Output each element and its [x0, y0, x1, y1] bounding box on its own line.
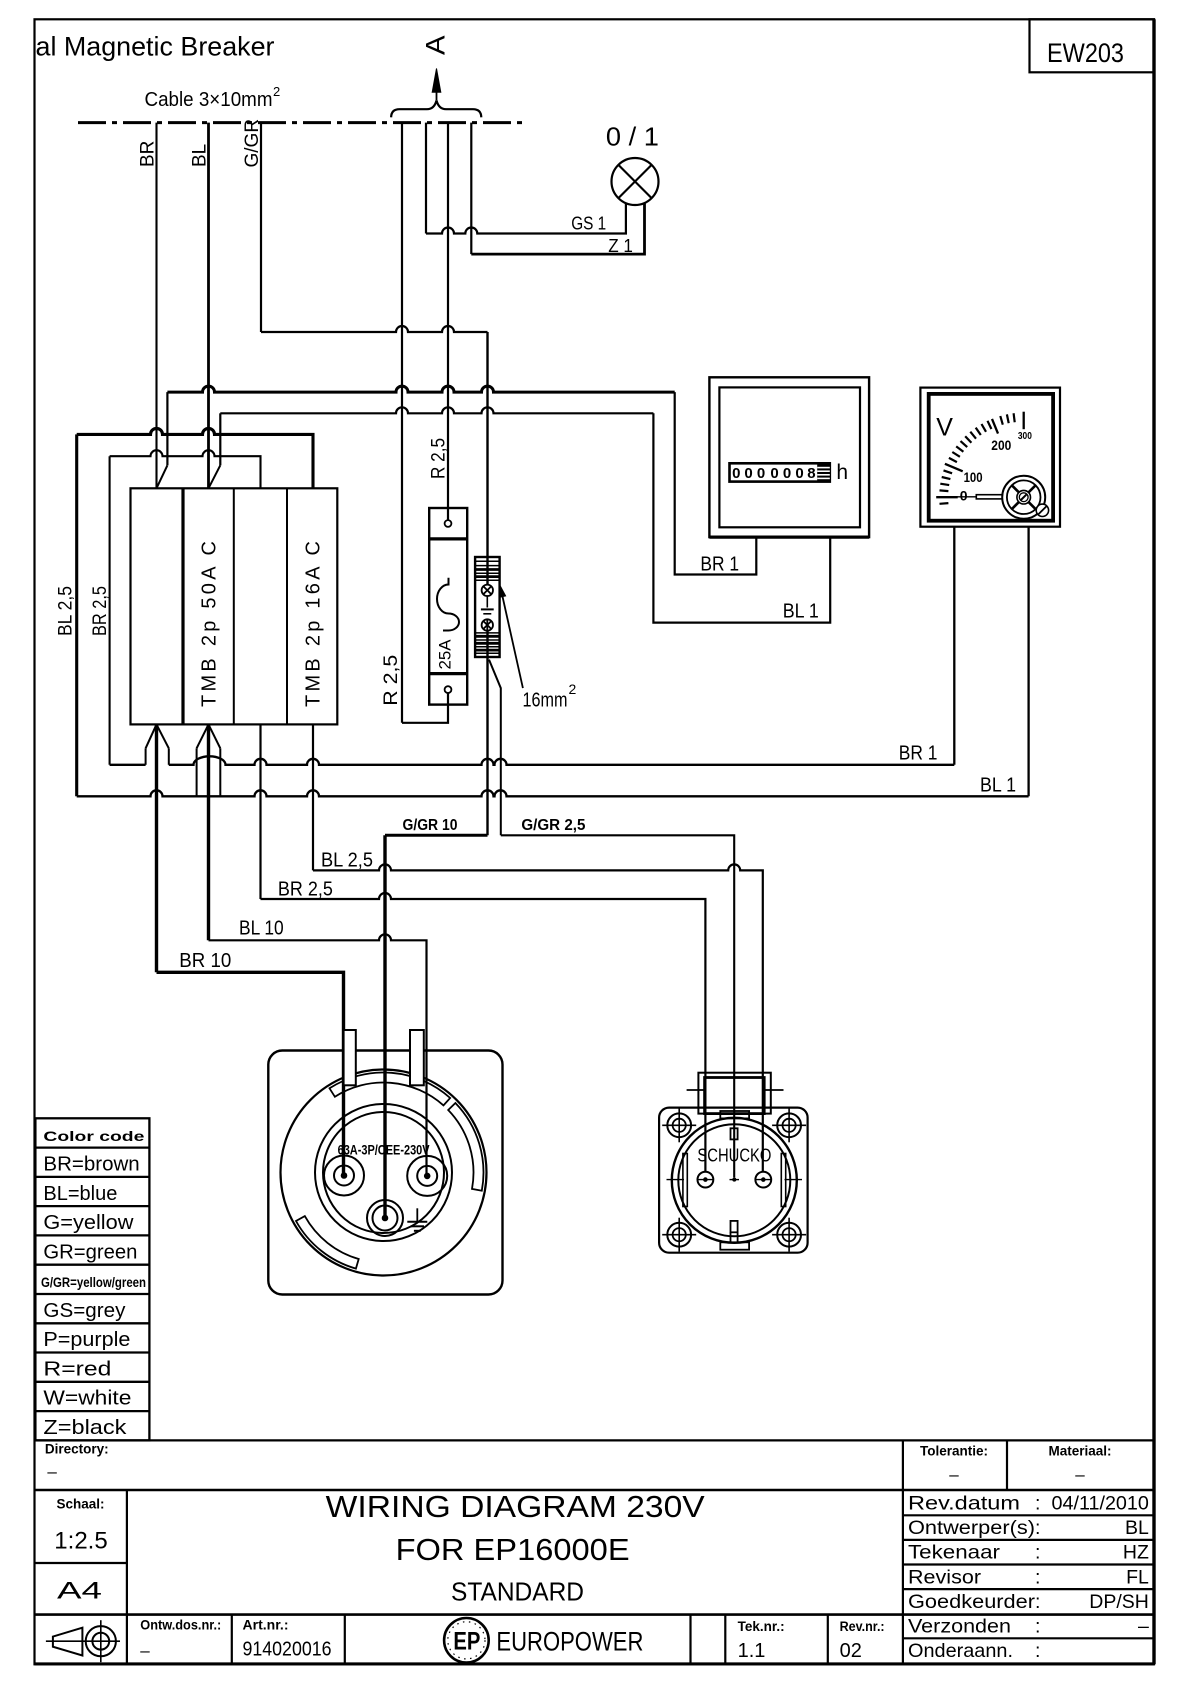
- svg-text:0: 0: [795, 465, 803, 482]
- svg-text:WIRING DIAGRAM 230V: WIRING DIAGRAM 230V: [326, 1489, 705, 1524]
- SCHUKO mounting screw top-left: [662, 1108, 696, 1142]
- wire BL vertical from cable to breaker: [207, 123, 210, 489]
- brace over cable bundle A: [391, 100, 481, 117]
- wire G/GR 10 run to CEE centre pin: [385, 835, 488, 1215]
- svg-text:G/GR=yellow/green: G/GR=yellow/green: [41, 1275, 146, 1290]
- svg-text:Schaal:: Schaal:: [56, 1496, 104, 1511]
- svg-text:0 / 1: 0 / 1: [606, 121, 659, 151]
- svg-text:Onderaann.: Onderaann.: [908, 1640, 1013, 1662]
- cable dash-dot line: [78, 121, 524, 124]
- svg-text:300: 300: [1018, 431, 1032, 442]
- svg-text:GS=grey: GS=grey: [43, 1300, 125, 1322]
- wire BR vertical from cable to breaker: [155, 123, 157, 489]
- svg-text:0: 0: [783, 465, 791, 482]
- wire breaker output 3 straight down: [259, 724, 261, 899]
- svg-text:25A: 25A: [436, 639, 455, 670]
- CEE bayonet ring arcs: [296, 1072, 483, 1268]
- wire 16A feed upper: line y434 to BL2,5 drop: [77, 428, 313, 796]
- CEE outer circle: [281, 1070, 487, 1276]
- svg-text:Rev.datum: Rev.datum: [908, 1493, 1020, 1515]
- svg-text:P=purple: P=purple: [43, 1329, 130, 1351]
- node BL tap to hour counter: line y413: [209, 407, 831, 622]
- svg-text:1:2.5: 1:2.5: [54, 1528, 107, 1555]
- EUROPOWER logo: [444, 1618, 489, 1663]
- svg-text:al Magnetic Breaker: al Magnetic Breaker: [36, 32, 275, 62]
- svg-text:G/GR 2,5: G/GR 2,5: [521, 817, 585, 834]
- CEE socket 63A outline: [268, 1051, 502, 1295]
- circuit breaker TMB box: [131, 488, 338, 724]
- svg-text:0: 0: [757, 465, 765, 482]
- svg-text:BR=brown: BR=brown: [43, 1154, 139, 1176]
- node BR tap to hour counter: line y392: [157, 386, 757, 574]
- svg-text:–: –: [949, 1465, 959, 1484]
- SCHUKO top connection box: [687, 1073, 784, 1114]
- SCHUKO centre point: [732, 1178, 736, 1182]
- svg-text:–: –: [1075, 1465, 1085, 1484]
- voltmeter scale ticks: [936, 412, 1024, 504]
- wire breaker output 4 straight down: [312, 724, 314, 870]
- svg-text:FOR EP16000E: FOR EP16000E: [396, 1532, 630, 1567]
- SCHUKO pin left: [698, 1172, 714, 1188]
- wire fuse bottom to A1: [402, 693, 448, 723]
- color code table: [35, 1118, 149, 1440]
- svg-text:EUROPOWER: EUROPOWER: [496, 1626, 643, 1656]
- svg-text:04/11/2010: 04/11/2010: [1052, 1493, 1150, 1515]
- svg-text:EP: EP: [453, 1628, 480, 1656]
- wire BL 2,5 run to SCHUKO right pin (hops G/GR wires): [313, 864, 763, 1171]
- svg-text:BL 1: BL 1: [980, 775, 1016, 797]
- svg-text:BR 10: BR 10: [179, 950, 231, 972]
- svg-text:GS 1: GS 1: [571, 213, 606, 233]
- svg-text:A4: A4: [57, 1578, 102, 1605]
- CEE mounting tabs: [344, 1030, 424, 1085]
- svg-text:DP/SH: DP/SH: [1089, 1591, 1149, 1613]
- terminal block screw 1: [482, 585, 493, 596]
- svg-text:Z=black: Z=black: [43, 1417, 127, 1439]
- wire t2 tap diagonals to BL1 bus: [197, 724, 221, 796]
- terminal block screw 2: [482, 619, 493, 630]
- svg-text:Color code: Color code: [43, 1128, 144, 1144]
- hour counter tenth drum (hatched): [817, 464, 830, 482]
- svg-text:Cable 3×10mm: Cable 3×10mm: [145, 89, 273, 111]
- SCHUKO mounting screw bottom-right: [772, 1218, 806, 1252]
- svg-text:8: 8: [807, 465, 815, 482]
- arrow A (measurement reference): [432, 69, 441, 101]
- svg-text:0: 0: [732, 465, 740, 482]
- svg-text::: :: [1035, 1517, 1040, 1539]
- hour counter digit window: [730, 463, 830, 481]
- lamp / switch indicator 0/1: [612, 158, 659, 205]
- svg-text:63A-3P/CEE-230V: 63A-3P/CEE-230V: [338, 1143, 430, 1158]
- svg-text:Goedkeurder: Goedkeurder: [908, 1591, 1036, 1613]
- svg-text::: :: [1035, 1640, 1040, 1662]
- CEE earth symbol: [407, 1208, 427, 1231]
- svg-text:BL=blue: BL=blue: [43, 1183, 117, 1205]
- voltmeter V1 box: [920, 388, 1060, 527]
- fuse F1 25A body: [429, 508, 467, 705]
- wire A4 vertical (to Z1): [470, 123, 472, 255]
- svg-text:Verzonden: Verzonden: [908, 1616, 1011, 1638]
- svg-text:W=white: W=white: [43, 1388, 131, 1410]
- svg-text:A: A: [421, 35, 451, 55]
- SCHUKO pin right: [755, 1172, 771, 1188]
- svg-text:1.1: 1.1: [738, 1640, 766, 1662]
- CEE inner circles: [315, 1104, 452, 1241]
- svg-text:BR 2,5: BR 2,5: [90, 586, 111, 636]
- svg-text:V: V: [936, 414, 953, 442]
- svg-text:Tolerantie:: Tolerantie:: [920, 1444, 988, 1459]
- SCHUKO centrelines: [667, 1179, 803, 1181]
- SCHUKO side earth slots: [683, 1154, 786, 1207]
- SCHUKO face circles: [672, 1118, 797, 1243]
- svg-text:BR: BR: [138, 141, 159, 167]
- svg-text:Art.nr.:: Art.nr.:: [243, 1618, 289, 1633]
- svg-text::: :: [1035, 1616, 1040, 1638]
- leader line 16mm2 with arrow: [500, 586, 523, 688]
- svg-text:GR=green: GR=green: [43, 1241, 137, 1263]
- svg-text:100: 100: [964, 470, 983, 485]
- svg-text:BL 1: BL 1: [783, 601, 819, 623]
- wire BR 2,5 run to SCHUKO left pin: [261, 893, 706, 1172]
- svg-text:BR 2,5: BR 2,5: [278, 878, 333, 900]
- svg-text:Revisor: Revisor: [908, 1566, 982, 1588]
- svg-text:Directory:: Directory:: [45, 1441, 109, 1456]
- svg-text:FL: FL: [1126, 1566, 1149, 1588]
- svg-text::: :: [1035, 1591, 1040, 1613]
- svg-text:2: 2: [569, 681, 577, 697]
- svg-text:BR 1: BR 1: [899, 743, 938, 765]
- svg-text:16mm: 16mm: [523, 690, 568, 712]
- svg-text:Materiaal:: Materiaal:: [1048, 1444, 1111, 1459]
- wire BL1 bus to voltmeter: [77, 527, 1029, 797]
- SCHUKO mounting screw top-right: [772, 1108, 806, 1142]
- svg-text:Tekenaar: Tekenaar: [908, 1542, 1001, 1564]
- voltmeter scale labels: [960, 431, 1032, 504]
- wire Z1 horizontal to lamp: [471, 203, 644, 254]
- hour counter P1 box: [709, 377, 869, 537]
- svg-text:R 2,5: R 2,5: [381, 655, 402, 706]
- wire A3 vertical (to fuse top): [447, 123, 449, 521]
- svg-text::: :: [1035, 1542, 1040, 1564]
- wire 16A feed lower: line y456 to BR2,5 drop: [110, 450, 261, 765]
- wire terminal block feed (G/GR down from y332): [486, 332, 488, 585]
- voltmeter needle: [952, 495, 1006, 499]
- svg-text:Rev.nr.:: Rev.nr.:: [840, 1619, 885, 1634]
- svg-text:SCHUCKO: SCHUCKO: [697, 1146, 771, 1166]
- svg-text:0: 0: [744, 465, 752, 482]
- svg-text:R=red: R=red: [43, 1358, 111, 1380]
- svg-text:Tek.nr.:: Tek.nr.:: [738, 1619, 785, 1634]
- svg-text:2: 2: [273, 84, 280, 99]
- svg-text:G/GR: G/GR: [242, 119, 263, 168]
- projection symbol: [46, 1620, 120, 1662]
- svg-text:BL: BL: [190, 144, 211, 167]
- svg-text:0: 0: [770, 465, 778, 482]
- svg-text:–: –: [140, 1641, 150, 1660]
- SCHUKO socket outline: [659, 1108, 808, 1253]
- svg-text:BL 2,5: BL 2,5: [56, 586, 77, 636]
- wire t1 tap diagonals to BR1 bus: [146, 724, 169, 764]
- svg-text:Z 1: Z 1: [608, 236, 633, 256]
- svg-text:BL: BL: [1125, 1517, 1149, 1539]
- hour counter digits 0000008: [732, 465, 815, 482]
- revision table texts: [908, 1493, 1149, 1663]
- svg-text:BL 10: BL 10: [239, 918, 284, 940]
- CEE pin PE (bottom): [367, 1200, 403, 1236]
- svg-text:Ontwerper(s): Ontwerper(s): [908, 1517, 1035, 1539]
- wire terminal block bottom to G/GR10: [486, 631, 488, 836]
- wire G/GR 2,5 run to SCHUKO earth: [501, 835, 734, 1177]
- svg-text:–: –: [1138, 1616, 1149, 1638]
- svg-text::: :: [1035, 1493, 1040, 1515]
- wire breaker output 2 (BL) straight down: [207, 724, 210, 940]
- wire G/GR vertical from cable: [260, 123, 262, 332]
- svg-text:–: –: [47, 1462, 57, 1481]
- SCHUKO mounting screw bottom-left: [662, 1218, 696, 1252]
- svg-text:STANDARD: STANDARD: [451, 1576, 584, 1606]
- svg-text:R 2,5: R 2,5: [429, 438, 450, 479]
- title box EW203: [1030, 19, 1155, 72]
- svg-text:914020016: 914020016: [243, 1639, 332, 1661]
- svg-text::: :: [1035, 1566, 1040, 1588]
- wire terminal block diagonal to G/GR2,5 riser: [489, 660, 501, 836]
- CEE pin N (right): [407, 1156, 447, 1196]
- CEE pin L (left): [324, 1156, 364, 1196]
- voltmeter locking screw: [1036, 504, 1048, 516]
- svg-text:G/GR 10: G/GR 10: [403, 817, 458, 834]
- SCHUKO top tab and earth slot: [720, 1111, 749, 1250]
- wire A2 vertical (to GS1): [425, 123, 427, 234]
- voltmeter adjuster wheel: [1002, 476, 1045, 519]
- svg-text:HZ: HZ: [1123, 1542, 1149, 1564]
- wire A1 vertical (to fuse bottom): [401, 123, 403, 723]
- svg-text:h: h: [836, 461, 848, 484]
- svg-text:G=yellow: G=yellow: [43, 1212, 134, 1234]
- svg-text:200: 200: [991, 438, 1011, 453]
- svg-text:0: 0: [960, 488, 968, 504]
- wire BL 10 run to CEE right pin: [209, 934, 427, 1173]
- wire BR1 bus to voltmeter: [110, 527, 955, 765]
- svg-text:BL 2,5: BL 2,5: [321, 850, 373, 872]
- svg-text:02: 02: [840, 1640, 862, 1662]
- terminal block earth link: [481, 596, 494, 614]
- wire G/GR horizontal run to terminal block (hops over A-wires): [261, 326, 488, 332]
- fuse element S-curve: [437, 578, 459, 631]
- svg-text:Ontw.dos.nr.:: Ontw.dos.nr.:: [140, 1618, 221, 1633]
- wire BR 10 run to CEE left pin: [157, 972, 344, 1173]
- svg-text:EW203: EW203: [1047, 38, 1124, 68]
- wire GS1 horizontal to lamp (hops over A3,A4): [426, 203, 626, 233]
- title block grid: [35, 1440, 1155, 1664]
- terminal block X1 16mm2: [475, 557, 500, 657]
- svg-text:BR 1: BR 1: [700, 554, 739, 576]
- wire breaker output 1 (BR) straight down: [155, 724, 158, 972]
